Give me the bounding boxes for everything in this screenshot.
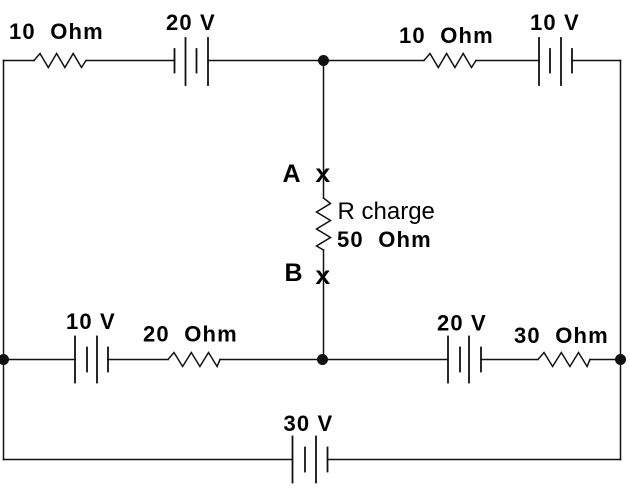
resistor R1 10 Ohm top-left	[34, 54, 86, 68]
label 10 Ohm (R2)	[399, 23, 494, 48]
battery B4 20V bottom-right	[448, 337, 481, 383]
wire from battery 20V to top node	[208, 60, 324, 62]
label 10 V (B3)	[66, 309, 116, 334]
svg-text:30 Ohm: 30 Ohm	[514, 323, 609, 348]
resistor R2 10 Ohm top-right	[424, 54, 476, 68]
svg-text:A: A	[283, 160, 301, 188]
wire bottom edge right of battery 30V	[328, 459, 621, 461]
label 30 Ohm (R4)	[514, 323, 609, 348]
wire from R3 to bottom-center node	[220, 359, 323, 361]
svg-text:x: x	[315, 262, 331, 292]
label node B	[285, 259, 303, 287]
terminal x mark at node B	[315, 262, 331, 292]
wire from R2 to battery 10V	[476, 60, 539, 62]
wire top-left horizontal segment	[4, 60, 35, 62]
wire bottom edge left of battery 30V	[4, 459, 293, 461]
resistor R4 30 Ohm bottom-right	[538, 353, 590, 367]
svg-text:x: x	[315, 160, 331, 190]
node left-middle junction	[0, 354, 9, 365]
svg-text:20 Ohm: 20 Ohm	[143, 322, 238, 347]
svg-text:10 V: 10 V	[530, 10, 580, 35]
wire middle branch upper	[323, 61, 325, 199]
svg-text:10 Ohm: 10 Ohm	[399, 23, 494, 48]
wire from battery B3 to R3	[108, 359, 168, 361]
label 20 V (B4)	[437, 311, 487, 336]
battery B2 10V top-right	[539, 38, 572, 85]
label 20 Ohm (R3)	[143, 322, 238, 347]
wire from R1 to battery 20V	[86, 60, 175, 62]
wire from left node to battery 10V bottom	[4, 359, 76, 361]
resistor R5 50 Ohm middle vertical	[317, 198, 331, 250]
svg-text:20 V: 20 V	[166, 10, 216, 35]
wire from R4 to right node	[590, 359, 621, 361]
svg-text:20 V: 20 V	[437, 311, 487, 336]
battery B3 10V bottom-left	[75, 337, 108, 383]
label 30 V (B5)	[284, 411, 334, 436]
wire left vertical edge	[3, 61, 5, 460]
wire right vertical edge	[620, 61, 622, 460]
wire from top node to R2	[324, 60, 425, 62]
node bottom-center junction	[317, 354, 328, 365]
wire middle branch lower	[323, 250, 325, 360]
svg-text:30 V: 30 V	[284, 411, 334, 436]
node right-middle junction	[615, 354, 626, 365]
wire from bottom-center node to battery 20V	[323, 359, 449, 361]
terminal x mark at node A	[315, 160, 331, 190]
node top-center junction	[318, 55, 329, 66]
battery B1 20V top-left	[175, 38, 209, 85]
label R charge	[338, 198, 435, 225]
svg-text:10 Ohm: 10 Ohm	[9, 19, 104, 44]
svg-text:10 V: 10 V	[66, 309, 116, 334]
battery B5 30V bottom	[293, 437, 328, 483]
svg-text:B: B	[285, 259, 303, 287]
wire from battery 10V to top-right corner	[572, 60, 621, 62]
label node A	[283, 160, 301, 188]
resistor R3 20 Ohm bottom-left	[168, 353, 220, 367]
label 10 V (B2)	[530, 10, 580, 35]
svg-text:50 Ohm: 50 Ohm	[337, 227, 432, 252]
svg-text:R charge: R charge	[338, 198, 435, 225]
label 20 V (B1)	[166, 10, 216, 35]
wire from battery B4 to R4	[481, 359, 538, 361]
label 50 Ohm (R5)	[337, 227, 432, 252]
label 10 Ohm (R1)	[9, 19, 104, 44]
